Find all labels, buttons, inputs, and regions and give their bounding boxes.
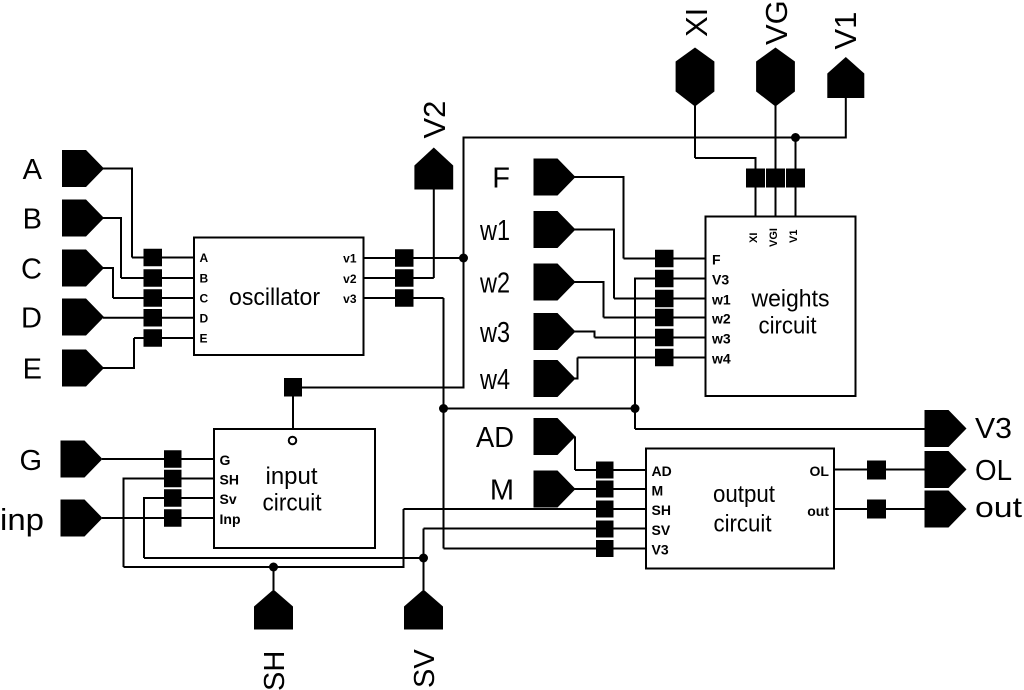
wire SH right vertical <box>403 509 405 568</box>
node square above input circuit <box>284 378 302 397</box>
input circuit block U2 <box>214 429 375 548</box>
wire B pad to bend <box>103 217 121 219</box>
wire net V1 vertical at x463 <box>463 138 465 389</box>
wire M row into output <box>575 488 647 490</box>
input circuit inverter bubble <box>289 437 297 445</box>
svg-text:M: M <box>490 475 514 507</box>
connector column v1-v3 row v2 <box>395 269 414 287</box>
svg-text:A: A <box>23 154 43 186</box>
connector column weights row w1 <box>655 290 674 308</box>
svg-text:input: input <box>266 463 318 490</box>
wire out row to pad <box>834 508 926 510</box>
wire Sv row from input <box>144 497 214 499</box>
wire SH row from input <box>124 478 215 480</box>
pad w2 <box>534 264 576 301</box>
pad w3 <box>534 313 576 350</box>
wire E pad to bend <box>103 367 134 369</box>
svg-text:AD: AD <box>476 422 514 454</box>
svg-text:V1: V1 <box>788 230 800 243</box>
svg-text:out: out <box>807 503 829 519</box>
connector square out <box>867 500 886 519</box>
wire C vertical <box>112 267 114 298</box>
node V1 top junction <box>791 133 800 142</box>
pad out <box>925 491 967 528</box>
wire SH pad stem <box>273 567 275 590</box>
connector column A-E row B <box>144 269 163 287</box>
node v1/V1 junction <box>459 254 468 263</box>
wire w3 pad to bend <box>575 331 595 333</box>
connector column input row Sv <box>164 489 182 507</box>
connector column input row SH <box>164 470 182 488</box>
wire SH row into output <box>404 508 647 510</box>
wire net V3 bottom row into output <box>444 548 647 550</box>
svg-text:V2: V2 <box>417 101 452 139</box>
wire OL row to pad <box>834 469 926 471</box>
wire Sv left vertical <box>143 497 145 558</box>
connector column A-E row D <box>144 309 163 327</box>
wire w4 row into weights <box>578 357 706 359</box>
pad V1 (top) <box>827 57 864 98</box>
wire w4 pad to bend <box>575 378 578 380</box>
svg-text:VGI: VGI <box>768 228 780 247</box>
wire E row into oscillator <box>134 337 194 339</box>
connector column output row M <box>596 481 614 498</box>
svg-text:XI: XI <box>748 233 760 243</box>
svg-text:v2: v2 <box>343 272 357 286</box>
connector column output row SV <box>596 521 614 538</box>
wire F vertical <box>623 176 625 259</box>
svg-text:v1: v1 <box>343 252 357 266</box>
svg-text:XI: XI <box>679 8 714 37</box>
svg-text:OL: OL <box>810 463 830 479</box>
svg-text:circuit: circuit <box>759 313 817 340</box>
wire v2 row <box>364 277 434 279</box>
wire E vertical <box>133 338 135 369</box>
svg-text:F: F <box>492 163 510 195</box>
wire net V3 middle horizontal <box>444 408 636 410</box>
wire w1 pad to bend <box>575 229 615 231</box>
wire VGI pad stem <box>775 106 777 170</box>
wire B vertical <box>120 217 122 278</box>
connector column weights row w4 <box>655 349 674 367</box>
svg-text:w1: w1 <box>479 215 510 247</box>
wire w3 row into weights <box>595 337 706 339</box>
svg-text:G: G <box>19 445 42 477</box>
wire v1 row <box>364 257 464 259</box>
pad XI (top hexagon) <box>676 48 715 107</box>
node SV junction <box>419 554 428 563</box>
svg-text:out: out <box>975 492 1022 524</box>
svg-text:M: M <box>652 483 664 499</box>
connector column A-E row C <box>144 289 163 307</box>
svg-text:w1: w1 <box>711 292 731 308</box>
wire XI pad stem <box>694 106 696 159</box>
connector column input row G <box>164 450 182 468</box>
wire SV row into output <box>424 528 647 530</box>
svg-text:circuit: circuit <box>714 511 772 538</box>
weights circuit block U3 <box>706 217 856 397</box>
wire SV pad stem <box>423 558 425 590</box>
svg-text:output: output <box>713 481 775 508</box>
wire net V3 drop to pad row <box>634 409 636 430</box>
wire w2 pad to bend <box>575 281 604 283</box>
connector column weights row V3 <box>655 270 674 288</box>
svg-text:D: D <box>200 312 209 326</box>
pad D <box>62 299 104 336</box>
svg-text:circuit: circuit <box>263 490 322 517</box>
pad SH (bottom) <box>254 590 293 630</box>
svg-text:V3: V3 <box>652 542 669 558</box>
wire V1 junction drop to connector <box>795 138 797 170</box>
pad G <box>61 441 103 478</box>
pad OL <box>925 451 967 488</box>
wire G row into input <box>102 458 214 460</box>
output circuit block U4 <box>646 449 834 569</box>
svg-text:B: B <box>200 272 209 286</box>
wire SV right vertical <box>423 529 425 560</box>
svg-text:D: D <box>21 303 42 335</box>
wire w1 row into weights <box>614 298 706 300</box>
pad AD <box>534 418 576 455</box>
svg-text:OL: OL <box>975 455 1012 487</box>
wire A pad to bend <box>103 168 132 170</box>
wire AD vertical <box>574 437 576 471</box>
svg-text:V3: V3 <box>975 413 1012 445</box>
node V3 junction right <box>631 404 640 413</box>
connector top square V1 <box>786 169 805 188</box>
connector column weights row F <box>655 250 674 268</box>
wire v3 row <box>364 297 444 299</box>
svg-text:w4: w4 <box>711 351 731 367</box>
pad A <box>62 150 104 187</box>
svg-text:G: G <box>220 452 231 468</box>
wire F row into weights <box>624 258 706 260</box>
wire net V1 top horizontal <box>463 137 846 139</box>
pad VGI (top hexagon) <box>756 48 795 107</box>
wire SH left vertical <box>123 478 125 568</box>
wire w4 vertical <box>577 358 579 380</box>
wire net V3 horizontal to pad <box>635 428 926 430</box>
wire C pad to bend <box>103 267 113 269</box>
svg-text:E: E <box>200 332 208 346</box>
wire weights V3 row <box>635 278 706 280</box>
wire net V3 vertical at x635 <box>634 278 636 409</box>
pad V2 (top) <box>414 148 453 190</box>
wire AD row into output <box>575 469 646 471</box>
svg-text:Sv: Sv <box>220 491 237 507</box>
svg-text:w2: w2 <box>479 268 510 300</box>
wire VGI connector stub into weights <box>775 187 777 217</box>
svg-text:F: F <box>712 252 721 268</box>
wire w1 vertical <box>613 229 615 299</box>
wire C row into oscillator <box>113 297 194 299</box>
node V3 junction left <box>439 404 448 413</box>
svg-text:Inp: Inp <box>220 511 241 527</box>
connector column v1-v3 row v3 <box>395 289 414 307</box>
svg-text:AD: AD <box>652 463 672 479</box>
connector column A-E row E <box>144 329 163 347</box>
wire net V3 vertical at x443 <box>443 298 445 549</box>
svg-text:w2: w2 <box>711 311 731 327</box>
pad inp <box>61 500 103 537</box>
svg-text:SH: SH <box>652 502 671 518</box>
svg-text:V1: V1 <box>828 12 863 50</box>
wire w2 vertical <box>603 281 605 318</box>
wire V1 connector stub into weights <box>795 187 797 217</box>
svg-text:oscillator: oscillator <box>229 284 320 311</box>
pad w4 <box>534 360 576 397</box>
connector column v1-v3 row v1 <box>395 249 414 267</box>
pad C <box>62 250 104 287</box>
pad w1 <box>534 211 576 248</box>
pad F <box>534 159 576 196</box>
svg-text:SV: SV <box>652 522 671 538</box>
wire XI drop to connector <box>755 157 757 169</box>
connector top square VGI <box>766 169 785 188</box>
pad E <box>62 350 104 387</box>
wire A row into oscillator <box>132 257 194 259</box>
svg-text:A: A <box>200 251 209 265</box>
oscillator block U1 <box>194 238 364 356</box>
svg-text:SH: SH <box>259 651 291 690</box>
wire input circuit top stem <box>292 396 294 429</box>
wire SH bottom horizontal <box>124 566 404 568</box>
wire XI horizontal jog <box>695 157 756 159</box>
pad V3 right <box>925 410 967 447</box>
connector column output row V3 <box>596 540 614 557</box>
node SH junction <box>269 563 278 572</box>
svg-text:v3: v3 <box>343 292 357 306</box>
connector column weights row w3 <box>655 329 674 347</box>
pad M <box>534 471 576 508</box>
connector square OL <box>867 461 886 480</box>
wire D row into oscillator <box>103 317 194 319</box>
wire V2 stem <box>433 189 435 278</box>
wire inp row into input <box>102 517 214 519</box>
svg-text:SV: SV <box>409 649 441 688</box>
pad B <box>62 200 104 237</box>
wire XI connector stub into weights <box>755 187 757 217</box>
connector top square XI <box>746 169 765 188</box>
connector column output row AD <box>596 462 614 479</box>
connector column output row SH <box>596 501 614 518</box>
connector column input row Inp <box>164 509 182 527</box>
wire A vertical <box>131 168 133 258</box>
svg-text:SH: SH <box>220 472 239 488</box>
svg-text:VGI: VGI <box>759 0 794 45</box>
wire SV bottom horizontal <box>144 557 424 559</box>
svg-text:E: E <box>23 354 42 386</box>
wire B row into oscillator <box>121 277 194 279</box>
wire net V1 lower horizontal from input square <box>302 387 465 389</box>
svg-text:w3: w3 <box>711 331 731 347</box>
wire w3 vertical <box>594 331 596 338</box>
svg-text:C: C <box>200 292 209 306</box>
wire w2 row into weights <box>604 317 706 319</box>
connector column A-E row A <box>144 249 163 267</box>
svg-text:inp: inp <box>0 502 44 537</box>
connector column weights row w2 <box>655 309 674 327</box>
svg-text:weights: weights <box>751 286 830 313</box>
pad SV (bottom) <box>404 590 443 630</box>
svg-text:B: B <box>23 204 42 236</box>
wire V1 pad stem <box>845 97 847 139</box>
svg-text:C: C <box>21 254 42 286</box>
wire F pad to bend <box>575 176 624 178</box>
svg-text:w4: w4 <box>479 364 510 396</box>
svg-text:w3: w3 <box>479 317 510 349</box>
svg-text:V3: V3 <box>712 272 729 288</box>
